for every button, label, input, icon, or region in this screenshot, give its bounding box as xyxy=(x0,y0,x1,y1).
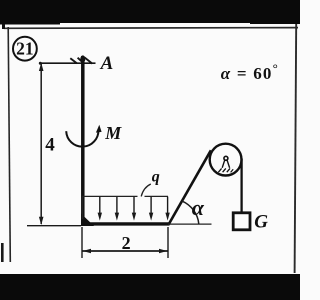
left edge scan artifacts xyxy=(2,24,5,29)
svg-text:A: A xyxy=(100,53,114,74)
load arrow 4 xyxy=(149,197,153,221)
beam top knob xyxy=(80,55,85,62)
hatch mark 3 xyxy=(85,58,93,64)
pulley axle pin xyxy=(224,156,228,160)
pin base hatch 2 xyxy=(223,168,226,172)
pin base hatch 3 xyxy=(227,168,230,172)
horizontal beam xyxy=(81,222,169,225)
dim 4 bottom arrowhead xyxy=(39,217,44,225)
dim 2 left arrowhead xyxy=(83,249,91,253)
svg-text:M: M xyxy=(104,123,122,143)
load left boundary xyxy=(82,196,84,219)
angle alpha arc xyxy=(182,201,199,224)
moment M arc xyxy=(66,130,98,147)
load arrow 5 xyxy=(165,197,169,221)
dim 2 right arrowhead xyxy=(159,249,167,253)
load arrow 2 xyxy=(115,197,119,221)
top black scan strip xyxy=(0,0,300,23)
dimension 2: right extension line xyxy=(167,227,169,258)
weight box G xyxy=(233,213,250,230)
hatch mark 2 xyxy=(78,58,84,64)
svg-text:α = 60°: α = 60° xyxy=(221,60,279,83)
problem number circle 21 xyxy=(13,37,37,61)
dimension 2: left extension line xyxy=(81,227,83,258)
svg-text:G: G xyxy=(254,212,268,233)
q leader line xyxy=(141,184,151,196)
bottom black scan strip xyxy=(0,274,300,300)
wall support line at A xyxy=(40,62,96,64)
svg-text:4: 4 xyxy=(45,135,55,156)
load arrow 3 xyxy=(132,197,136,221)
pin right leg xyxy=(227,160,230,168)
bottom tick line of dim 4 xyxy=(27,225,81,227)
svg-text:21: 21 xyxy=(16,38,34,58)
svg-text:2: 2 xyxy=(122,233,131,253)
inclined member xyxy=(168,150,211,225)
support junction dot xyxy=(39,62,42,65)
left frame border line xyxy=(8,27,10,262)
load arrow 1 xyxy=(98,197,102,221)
rope from pulley to weight xyxy=(240,159,242,213)
dimension line 4 (vertical) xyxy=(40,64,42,224)
top frame border line xyxy=(4,27,298,30)
pin base hatch 1 xyxy=(218,168,221,172)
moment M arrowhead xyxy=(96,125,102,133)
dim 4 top arrowhead xyxy=(39,63,44,71)
pin left leg xyxy=(222,160,225,168)
horizontal reference line at joint xyxy=(168,223,212,225)
pulley wheel xyxy=(210,144,242,176)
dimension 2 line xyxy=(83,250,168,252)
vertical beam xyxy=(81,56,85,225)
hatch mark 1 xyxy=(70,58,77,63)
right frame border line xyxy=(295,24,297,273)
svg-text:q: q xyxy=(152,169,160,186)
svg-text:α: α xyxy=(192,195,205,220)
pin base hatch 4 xyxy=(231,169,234,172)
corner fillet xyxy=(81,214,94,227)
distributed load top line xyxy=(82,195,138,197)
